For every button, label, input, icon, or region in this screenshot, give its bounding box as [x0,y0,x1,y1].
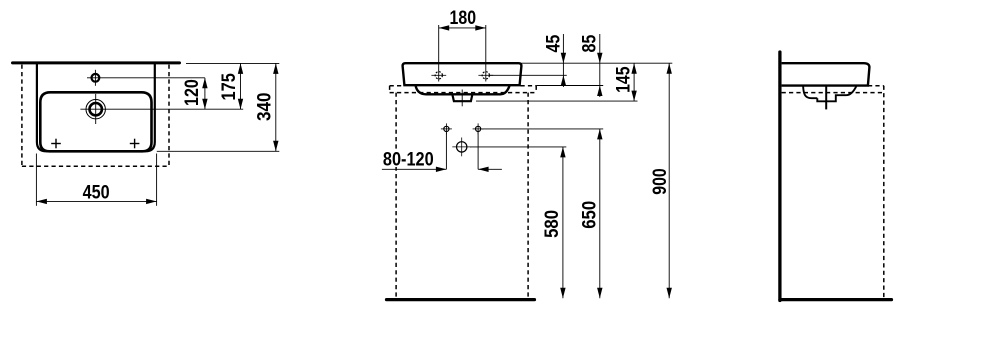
svg-text:180: 180 [450,8,477,29]
svg-text:900: 900 [650,168,671,194]
svg-text:650: 650 [580,201,601,229]
svg-text:450: 450 [83,183,110,204]
svg-text:80-120: 80-120 [383,150,434,171]
svg-text:145: 145 [614,66,635,93]
svg-text:45: 45 [544,34,565,52]
svg-text:175: 175 [219,73,240,101]
svg-text:120: 120 [182,79,203,106]
svg-text:580: 580 [542,210,563,238]
svg-text:85: 85 [580,34,601,52]
svg-text:340: 340 [254,92,275,121]
